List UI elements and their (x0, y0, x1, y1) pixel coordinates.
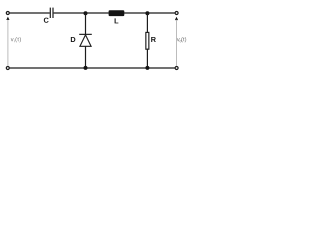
node D junction dot (bottom of resistor) (145, 66, 149, 70)
vi(t) arrow head (6, 17, 9, 20)
resistor R body box (146, 32, 149, 49)
diode D cathode bar (79, 33, 92, 35)
diode D triangle (anode, pointing up) (80, 35, 91, 46)
inductor L body (109, 10, 125, 16)
vo(t) label (177, 37, 186, 42)
wire top rail: capacitor to node A (54, 12, 86, 14)
node A junction dot (top of diode) (84, 11, 88, 15)
vo(t) arrow shaft (176, 20, 178, 66)
output terminal top-right (175, 12, 178, 15)
bottom rail wire (10, 67, 175, 69)
capacitor C left plate (49, 8, 51, 18)
input terminal bottom-left (6, 67, 9, 70)
wire diode anode lead to bottom rail (85, 46, 87, 68)
inductor L value label (115, 18, 119, 23)
capacitor C right plate (52, 8, 54, 18)
vi(t) arrow shaft (7, 20, 9, 66)
wire diode cathode lead from node A (85, 13, 87, 34)
wire top rail: inductor to node B (124, 12, 147, 14)
capacitor C value label (44, 18, 49, 23)
output terminal bottom-right (175, 67, 178, 70)
wire top rail: input terminal to capacitor (10, 12, 50, 14)
wire resistor bottom lead to bottom rail (146, 49, 148, 68)
wire resistor top lead from node B (146, 13, 148, 33)
input terminal top-left (6, 12, 9, 15)
vi(t) label (11, 37, 21, 42)
node C junction dot (bottom of diode) (84, 66, 88, 70)
node B junction dot (top of resistor) (145, 11, 149, 15)
wire top rail: node A to inductor (86, 12, 109, 14)
wire top rail: node B to output terminal (147, 12, 174, 14)
resistor R reference label (151, 37, 156, 42)
diode D reference label (71, 37, 76, 42)
vo(t) arrow head (175, 17, 178, 20)
